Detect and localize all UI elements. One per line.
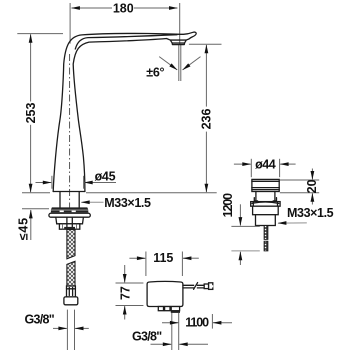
svg-text:≤45: ≤45 (16, 217, 30, 240)
svg-text:G3/8": G3/8" (25, 312, 55, 326)
svg-text:236: 236 (200, 109, 214, 130)
svg-text:1200: 1200 (221, 193, 235, 218)
svg-text:±6°: ±6° (146, 65, 164, 79)
svg-text:1100: 1100 (185, 316, 209, 330)
svg-text:M33×1.5: M33×1.5 (104, 196, 151, 210)
svg-text:77: 77 (118, 286, 132, 300)
svg-text:20: 20 (305, 179, 319, 193)
svg-text:ø44: ø44 (255, 157, 276, 171)
svg-text:253: 253 (24, 103, 38, 124)
svg-text:115: 115 (153, 251, 173, 265)
svg-text:ø45: ø45 (95, 169, 116, 183)
svg-text:180: 180 (113, 2, 134, 16)
svg-text:G3/8": G3/8" (132, 329, 162, 343)
svg-text:M33×1.5: M33×1.5 (287, 206, 334, 220)
